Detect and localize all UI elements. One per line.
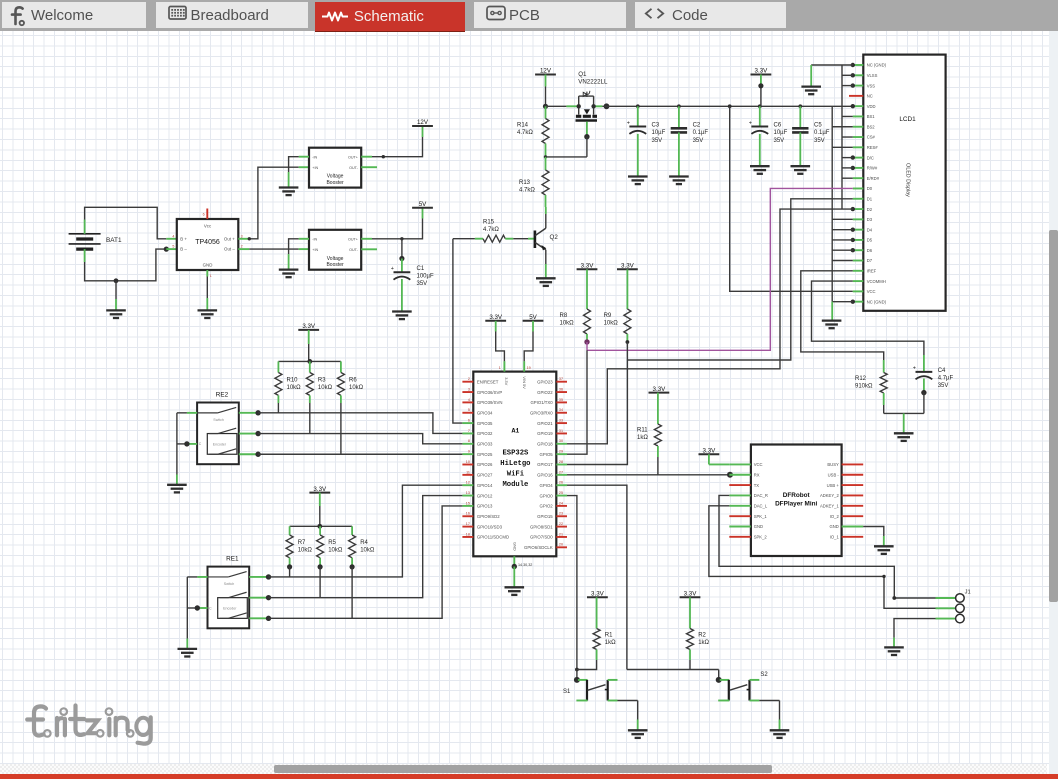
DFPlayer right pin GND stub: [842, 526, 864, 528]
svg-text:10kΩ: 10kΩ: [360, 547, 375, 553]
resistor R9 bottom stub: [626, 334, 628, 342]
svg-text:GPIO16: GPIO16: [537, 473, 553, 478]
wire DAC_R to J1: [719, 495, 936, 598]
svg-text:GND: GND: [513, 542, 518, 551]
svg-text:NC (GND): NC (GND): [867, 299, 887, 304]
svg-text:GPIO22: GPIO22: [537, 390, 553, 395]
S1 stub 1a: [578, 679, 588, 681]
svg-text:C6: C6: [774, 123, 782, 129]
RE2 left ground wire: [176, 413, 178, 475]
svg-text:23: 23: [559, 512, 563, 516]
svg-text:4.7µF: 4.7µF: [938, 375, 954, 381]
svg-text:19: 19: [527, 366, 531, 370]
RE1 right pin A stub: [249, 576, 268, 578]
svg-text:R12: R12: [855, 376, 867, 382]
ground below C6: [750, 166, 770, 174]
S1 contact nub: [605, 689, 608, 691]
svg-text:D5: D5: [867, 238, 873, 243]
svg-text:34: 34: [559, 408, 563, 412]
wire battery+ to TP4056 B+: [85, 207, 167, 239]
wire GPIO0 to S1: [576, 670, 578, 680]
capacitor C6: [749, 120, 769, 134]
resistor R12 bottom stub: [883, 393, 885, 405]
svg-text:R2: R2: [698, 632, 706, 638]
svg-text:35V: 35V: [938, 383, 949, 389]
ESP32 GND pin stub: [513, 556, 515, 566]
svg-text:VCC: VCC: [754, 462, 763, 467]
ground below C1: [392, 312, 412, 320]
svg-text:VCC: VCC: [867, 289, 876, 294]
svg-text:Switch: Switch: [224, 582, 235, 586]
svg-text:VSS: VSS: [867, 83, 876, 88]
svg-text:R1: R1: [605, 632, 613, 638]
RE1 left ground wire: [186, 577, 188, 639]
svg-text:R5: R5: [328, 540, 336, 546]
svg-text:3.3V: 3.3V: [621, 263, 635, 270]
junction Out+ bend: [248, 237, 251, 240]
wire bus1 stub row 10: [842, 157, 853, 159]
svg-text:3.3V: 3.3V: [489, 314, 503, 321]
junction C1 tap: [400, 237, 403, 240]
svg-text:BUSY: BUSY: [827, 462, 839, 467]
RE2 right pin SW stub: [239, 453, 258, 455]
Q1 gate stem: [586, 122, 588, 137]
wire R10 to row A: [277, 403, 279, 413]
svg-text:25: 25: [559, 491, 563, 495]
svg-text:9: 9: [468, 450, 470, 454]
svg-text:22: 22: [559, 522, 563, 526]
svg-text:4.7kΩ: 4.7kΩ: [519, 188, 535, 194]
RE2 encoder inner box: [207, 434, 237, 455]
power flag 3.3V (R11): [649, 386, 670, 393]
ground below battery: [106, 310, 126, 318]
module A1 ESP32 body: [473, 372, 556, 557]
ESP32 pin 2 red stub: [462, 381, 473, 383]
svg-text:SPK_1: SPK_1: [754, 514, 768, 519]
voltage booster U2 -IN wire to ground: [289, 157, 299, 172]
LCD1 pin D4 green stub: [853, 229, 864, 231]
DFPlayer left pin GND stub: [729, 526, 751, 528]
svg-text:17: 17: [466, 522, 470, 526]
svg-text:-IN: -IN: [312, 237, 317, 241]
wire 3.3V stem to rail: [760, 75, 762, 86]
ESP32 pin 25 green stub: [556, 495, 567, 497]
junction rail corner: [728, 104, 732, 108]
resistor R7: [286, 535, 293, 558]
ESP32 pin 31 red stub: [556, 432, 567, 434]
S2 terminal junction: [716, 677, 722, 683]
svg-text:1: 1: [499, 366, 501, 370]
ESP32 pin 28 green stub: [556, 464, 567, 466]
svg-text:R11: R11: [637, 428, 648, 434]
DFPlayer right pin IO_2 stub: [842, 515, 864, 517]
svg-text:NC: NC: [867, 94, 873, 99]
junction 3.3V stem: [758, 83, 763, 88]
ESP32 pin 5 red stub: [462, 412, 473, 414]
resistor R9 stem: [626, 269, 628, 309]
svg-text:R9: R9: [604, 313, 612, 319]
wire drain drop to LCD VCC: [730, 106, 853, 291]
junction R14/R13/gate: [544, 155, 547, 158]
ESP32 pin 21 red stub: [556, 536, 567, 538]
DFPlayer right pin ADKEY_2 stub: [842, 494, 864, 496]
svg-text:12V: 12V: [540, 68, 552, 75]
horizontal scrollbar: [0, 764, 1047, 774]
ESP32 pin 1 3.3V stub: [503, 361, 505, 371]
svg-text:31: 31: [559, 429, 563, 433]
wire RE2 A to GPIO32: [258, 413, 462, 434]
svg-text:1kΩ: 1kΩ: [605, 640, 616, 646]
display LCD1 body: [863, 55, 945, 311]
S2 actuator: [729, 685, 747, 691]
capacitor C2: [671, 128, 687, 132]
svg-text:12: 12: [466, 481, 470, 485]
ground below TP4056: [198, 310, 218, 318]
junction RX node: [727, 472, 733, 478]
svg-text:VCOMMH: VCOMMH: [867, 279, 886, 284]
resistor R15 right stub: [505, 238, 513, 240]
svg-text:D/C: D/C: [867, 155, 874, 160]
svg-text:GPIO36/SVP: GPIO36/SVP: [477, 390, 502, 395]
capacitor C3 stem: [637, 106, 639, 126]
svg-text:+IN: +IN: [312, 248, 318, 252]
wire RE2 SW to GPIO25: [258, 453, 462, 455]
resistor R6 bottom stub: [340, 395, 342, 403]
connector J1 circles: [956, 594, 965, 623]
svg-text:Out +: Out +: [224, 236, 235, 241]
DFPlayer right pin USB - stub: [842, 474, 864, 476]
svg-text:7: 7: [468, 429, 470, 433]
svg-text:OUT-: OUT-: [349, 166, 359, 170]
LCD1 pin CS# green stub: [853, 136, 864, 138]
LCD1 pin R/W# junction: [851, 166, 855, 170]
ESP32 pin 18 red stub: [462, 536, 473, 538]
ground below Q2: [536, 278, 556, 286]
ESP32 pin 3 red stub: [462, 391, 473, 393]
S1 left contact bar: [586, 680, 588, 701]
svg-text:IO_2: IO_2: [830, 514, 840, 519]
ESP32 pin 9 green stub: [462, 453, 473, 455]
resistor R5 bottom stub: [319, 558, 321, 567]
wire bus2 stub row 17: [832, 229, 853, 231]
power flag 3.3V (ESP pin1): [485, 314, 506, 321]
resistor R11 bottom stub: [657, 446, 659, 457]
svg-text:DFPlayer Mini: DFPlayer Mini: [775, 501, 817, 508]
DFPlayer left pin TX stub: [729, 484, 751, 486]
svg-text:A1: A1: [511, 427, 519, 434]
LCD1 pin VCOMMH green stub: [853, 280, 864, 282]
LCD1 pin VSS green stub: [853, 85, 864, 87]
svg-text:3.3V: 3.3V: [703, 448, 717, 455]
svg-text:12V: 12V: [417, 119, 429, 126]
resistor R15 left stub: [475, 238, 483, 240]
svg-text:10µF: 10µF: [774, 130, 788, 136]
junction Q1 left: [577, 104, 581, 108]
vertical scrollbar: [1049, 31, 1058, 774]
power flag 12V (booster1): [412, 119, 433, 126]
svg-text:GND: GND: [829, 524, 838, 529]
capacitor C6 lower stem: [759, 134, 761, 166]
wire bus2 stub row 16: [832, 218, 853, 220]
svg-text:3: 3: [468, 387, 470, 391]
wire bus1 stub row 3: [842, 85, 853, 87]
svg-text:3.3V: 3.3V: [755, 68, 769, 75]
S1 stub 2a: [608, 679, 618, 681]
svg-text:+: +: [749, 120, 752, 126]
svg-text:S1: S1: [563, 689, 571, 695]
wire net to S2: [718, 670, 720, 680]
resistor R8 bottom stub: [586, 334, 588, 342]
power flag 3.3V (R8): [577, 263, 598, 270]
voltage booster U3 OUT+ stub: [361, 238, 372, 240]
svg-text:Booster: Booster: [326, 262, 344, 268]
ground below C2: [669, 177, 689, 185]
RE2 pinC junction: [184, 441, 189, 446]
junction RE1 rail: [317, 524, 322, 529]
LCD1 pin VLSS junction: [851, 73, 855, 77]
tab Code: [635, 2, 786, 29]
capacitor C5: [792, 128, 808, 132]
wire GPIO35 riser: [453, 239, 463, 423]
wire C4 bottom: [923, 393, 925, 414]
wire GPIO16 to DFPlayer RX: [567, 474, 730, 476]
wire 5V to pin19: [532, 321, 534, 332]
LCD1 pin D2 green stub: [853, 208, 864, 210]
svg-text:GPIO21: GPIO21: [537, 421, 553, 426]
junction R8/D0 node: [584, 339, 589, 344]
junction C3 tap: [636, 104, 640, 108]
svg-text:DFRobot: DFRobot: [783, 492, 811, 499]
wire R2 to net: [689, 660, 691, 670]
svg-text:NC (GND): NC (GND): [867, 63, 887, 68]
svg-text:D1: D1: [867, 196, 873, 201]
S2 wire to ground: [759, 700, 779, 702]
wire bus1 stub row 6: [842, 115, 853, 117]
svg-text:BS2: BS2: [867, 124, 876, 129]
junction B- dot: [164, 247, 169, 252]
wire LCD bus2: [831, 106, 833, 302]
svg-text:GPIO19: GPIO19: [537, 431, 553, 436]
LCD1 pin D/C green stub: [853, 157, 864, 159]
svg-text:10µF: 10µF: [652, 130, 666, 136]
transistor Q1 VN2222LL: [576, 91, 598, 121]
resistor R11 stem: [657, 393, 659, 424]
wire net D1 R9 tail: [626, 342, 628, 360]
svg-text:20: 20: [559, 543, 563, 547]
svg-text:R3: R3: [318, 377, 326, 383]
RE2 switch lead: [197, 412, 218, 414]
svg-text:35V: 35V: [814, 138, 825, 144]
red status bar: [0, 774, 1058, 779]
svg-text:3.3V: 3.3V: [504, 377, 509, 385]
svg-text:TX: TX: [754, 483, 760, 488]
resistor R2: [687, 629, 694, 650]
pin GND stub: [206, 270, 208, 277]
ESP32 pin 27 green stub: [556, 474, 567, 476]
wire GPIO4 riser: [567, 485, 627, 669]
svg-text:GPIO25: GPIO25: [477, 452, 493, 457]
wire stub B- green: [166, 248, 177, 250]
wire battery- down: [85, 249, 167, 281]
ground below LCD: [822, 321, 842, 329]
power flag 5V (ESP pin19): [523, 314, 544, 321]
power flag 3.3V (R1): [587, 591, 608, 598]
wire LCD bus1: [841, 65, 843, 209]
svg-text:GND: GND: [754, 524, 763, 529]
power flag 3.3V (R9): [617, 263, 638, 270]
resistor R3: [306, 373, 313, 396]
svg-text:GPIO11/SDCMD: GPIO11/SDCMD: [477, 535, 509, 540]
wire RE1 pullup rail: [290, 525, 353, 527]
svg-text:HiLetgo: HiLetgo: [500, 460, 530, 468]
svg-text:GPIO32: GPIO32: [477, 431, 493, 436]
resistor R1 stem: [596, 597, 598, 628]
voltage booster U3 -IN wire to ground: [289, 239, 299, 254]
S2 stub 1a: [720, 679, 730, 681]
wire LCD top ground link: [811, 64, 853, 66]
junction RE2 rail: [307, 359, 312, 364]
connector J1 pin1 stub: [936, 597, 956, 599]
capacitor C4: [913, 366, 933, 380]
junction R9 node: [626, 340, 630, 344]
junction C4 bottom: [921, 390, 926, 395]
svg-text:IREF: IREF: [867, 269, 877, 274]
LCD1 pin VDD green stub: [853, 105, 864, 107]
wire net D1 to GPIO17: [567, 360, 627, 465]
DFPlayer left pin DAC_L stub: [729, 505, 751, 507]
svg-text:VLSS: VLSS: [867, 73, 878, 78]
ESP32 pin 20 red stub: [556, 546, 567, 548]
LCD1 pin D2 junction: [851, 207, 855, 211]
LCD1 pin NC (GND) junction: [851, 299, 855, 303]
wire bus2 stub row 7: [832, 126, 853, 128]
wire gate link: [546, 156, 587, 158]
voltage booster U3 body: [309, 230, 361, 270]
svg-text:D0: D0: [867, 186, 873, 191]
svg-text:GPIO8/SD1: GPIO8/SD1: [530, 524, 553, 529]
ESP32 pin 35 red stub: [556, 401, 567, 403]
svg-text:33: 33: [559, 419, 563, 423]
svg-text:GPIO6/SDCLK: GPIO6/SDCLK: [524, 545, 553, 550]
resistor R4: [349, 535, 356, 558]
RE1 right pin SW junction: [266, 616, 271, 621]
ESP32 pin 7 green stub: [462, 432, 473, 434]
wire R6 to row SW: [340, 403, 342, 454]
junction 12V rail: [543, 104, 548, 109]
svg-text:5V: 5V: [529, 314, 537, 321]
resistor R14: [542, 119, 549, 144]
svg-text:Voltage: Voltage: [327, 256, 344, 262]
svg-text:RES#: RES#: [867, 145, 879, 150]
LCD1 pin VDD junction: [851, 104, 855, 108]
voltage booster U2 OUT- stub: [361, 166, 377, 168]
LCD1 pin NC red stub: [849, 95, 863, 97]
ESP32 pin 15 green stub: [462, 505, 473, 507]
svg-text:Booster: Booster: [326, 180, 344, 186]
svg-text:LCD1: LCD1: [899, 116, 916, 123]
svg-text:3: 3: [241, 234, 243, 238]
S1 stub 1b: [576, 700, 587, 702]
Q1 drain green stub: [594, 105, 603, 107]
LCD1 pin D3 green stub: [853, 218, 864, 220]
svg-text:Out –: Out –: [224, 247, 235, 252]
tab PCB: [474, 2, 626, 29]
svg-text:3.3V: 3.3V: [684, 591, 698, 598]
tab Schematic (active): [315, 2, 465, 31]
svg-text:OUT+: OUT+: [348, 237, 358, 241]
RE2 right pin A stub: [239, 412, 258, 414]
svg-text:R4: R4: [360, 540, 368, 546]
LCD1 pin VCC green stub: [853, 290, 864, 292]
wire to battery ground: [115, 281, 117, 299]
svg-text:GPIO15: GPIO15: [537, 514, 553, 519]
svg-text:OLED Display: OLED Display: [905, 163, 911, 197]
svg-text:10kΩ: 10kΩ: [604, 321, 619, 327]
capacitor C1: [391, 266, 411, 280]
resistor R1: [593, 629, 600, 650]
svg-text:BAT1: BAT1: [106, 237, 122, 244]
svg-text:E/RD#: E/RD#: [867, 176, 880, 181]
ESP32 pin 12 green stub: [462, 484, 473, 486]
svg-text:D7: D7: [867, 258, 873, 263]
resistor R9: [624, 309, 631, 334]
resistor R12: [880, 373, 887, 394]
LCD1 pin BS1 green stub: [853, 115, 864, 117]
RE1 right pin B junction: [266, 595, 271, 600]
svg-text:R8: R8: [560, 313, 568, 319]
svg-text:Voltage: Voltage: [327, 174, 344, 180]
DFPlayer right pin IO_1 stub: [842, 536, 864, 538]
S2 stub 2a: [750, 679, 760, 681]
svg-text:10kΩ: 10kΩ: [298, 547, 313, 553]
RE1 right pin A junction: [266, 574, 271, 579]
svg-text:3.3V: 3.3V: [591, 591, 605, 598]
wire bus1 stub row 8: [842, 136, 853, 138]
wire 3.3V to VCC: [708, 454, 710, 464]
battery BAT1: [69, 220, 101, 262]
resistor R12 top stub: [883, 360, 885, 373]
RE2 pinC stub: [187, 443, 197, 445]
svg-text:S2: S2: [760, 672, 768, 678]
voltage booster U3 -IN stub: [299, 238, 309, 240]
svg-text:Q1: Q1: [578, 71, 587, 78]
svg-text:3.3V: 3.3V: [302, 323, 316, 330]
LCD1 pin D0 green stub: [853, 187, 864, 189]
svg-text:C1: C1: [417, 266, 425, 272]
wire R4 to row SW: [351, 567, 353, 618]
svg-text:GPIO0: GPIO0: [540, 493, 554, 498]
wire R15 to Q2 base: [513, 238, 528, 240]
LCD1 pin D7 green stub: [853, 260, 864, 262]
svg-text:13: 13: [466, 491, 470, 495]
resistor R8: [584, 309, 591, 334]
S1 stub 2b: [608, 700, 618, 702]
wire RE1 A to GPIO14: [269, 485, 463, 577]
RE1 pin1 stub: [197, 576, 207, 578]
resistor R15: [483, 235, 505, 242]
svg-text:10: 10: [466, 460, 470, 464]
RE1 encoder blade A: [220, 597, 229, 599]
capacitor C3 lower stem: [637, 134, 639, 177]
svg-text:GND: GND: [203, 263, 213, 268]
junction booster1 out bend: [382, 155, 385, 158]
wire R3 to row B: [309, 403, 311, 434]
svg-text:5: 5: [172, 245, 174, 249]
ESP32 pin 11 red stub: [462, 474, 473, 476]
svg-text:R13: R13: [519, 180, 531, 186]
junction DAC_R bend: [892, 596, 896, 600]
Q2 emitter wire: [545, 250, 547, 264]
